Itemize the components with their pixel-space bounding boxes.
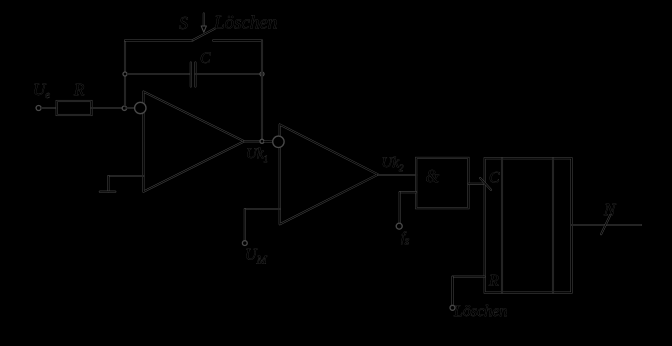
bus slash xyxy=(601,215,610,234)
wire switch branch right xyxy=(213,39,262,41)
wire input to R xyxy=(41,107,57,109)
wire counter reset xyxy=(453,276,485,278)
svg-text:N: N xyxy=(603,200,617,219)
capacitor C plate right xyxy=(194,63,196,87)
node at inverting input xyxy=(122,106,126,110)
svg-text:C: C xyxy=(489,170,500,187)
wire gate to counter xyxy=(468,183,484,185)
switch S blade xyxy=(193,29,215,41)
comparator U2 xyxy=(280,125,378,225)
wire feedback right vertical xyxy=(261,41,263,140)
inversion circle U1 xyxy=(135,102,146,113)
counter block outer xyxy=(485,158,572,292)
wire fz input xyxy=(400,191,417,193)
svg-text:Löschen: Löschen xyxy=(213,13,277,34)
svg-text:S: S xyxy=(179,13,188,33)
wire reset drop xyxy=(451,277,453,306)
arrow S head xyxy=(201,26,206,32)
arrow S shaft xyxy=(203,14,205,28)
node integrator output xyxy=(260,139,264,143)
svg-text:&: & xyxy=(426,166,440,186)
counter divider right xyxy=(552,158,554,292)
terminal fz xyxy=(396,223,402,229)
wire cap branch left xyxy=(127,73,191,75)
capacitor C plate left xyxy=(190,63,192,87)
svg-text:R: R xyxy=(488,273,499,290)
node cap branch right xyxy=(260,72,264,76)
svg-text:C: C xyxy=(200,50,211,67)
wire non-inv input U1 xyxy=(108,175,143,177)
op-amp U1 integrator xyxy=(143,92,244,192)
wire output N xyxy=(572,224,642,226)
wire U1 output xyxy=(244,140,260,142)
resistor R xyxy=(57,101,92,115)
clock dynamic slash xyxy=(480,178,491,190)
wire R to node xyxy=(91,107,122,109)
wire cap branch right xyxy=(195,73,260,75)
wire switch branch left xyxy=(125,39,193,41)
wire fz drop xyxy=(399,192,401,223)
svg-text:R: R xyxy=(73,80,85,99)
counter divider left xyxy=(501,158,503,292)
inversion circle U2 xyxy=(273,136,284,147)
terminal UM xyxy=(242,241,247,246)
wire node to op-amp xyxy=(127,107,135,109)
AND gate xyxy=(416,158,468,208)
wire node to comparator xyxy=(264,140,273,142)
wire ground drop xyxy=(107,176,109,192)
node cap branch left xyxy=(123,72,127,76)
wire comparator ref input xyxy=(245,208,280,210)
svg-text:Löschen: Löschen xyxy=(453,303,507,320)
terminal reset xyxy=(450,305,455,310)
wire ref drop xyxy=(244,209,246,241)
input terminal Ue xyxy=(36,106,41,111)
wire feedback left vertical xyxy=(124,41,126,107)
ground xyxy=(100,191,116,193)
wire comparator output xyxy=(378,174,416,176)
